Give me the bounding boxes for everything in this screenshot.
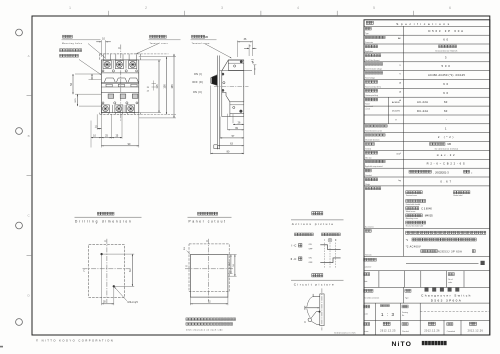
dim 36 top of side view <box>237 41 239 58</box>
lower vent block pole 1 <box>108 94 114 98</box>
blade to contact II (curve) <box>307 309 311 318</box>
svg-text:Scale: Scale <box>364 313 368 315</box>
svg-text:60: 60 <box>444 100 448 104</box>
row: scale / drawing no <box>374 303 376 320</box>
svg-text:M4X35: M4X35 <box>425 215 434 218</box>
wire from contact II to C circle <box>311 312 320 318</box>
svg-text:AC460·AC250 (*1) ·DC125: AC460·AC250 (*1) ·DC125 <box>428 73 465 77</box>
product name: Changeover Switch D563 3P60A <box>425 288 429 292</box>
svg-text:Mounting screw: Mounting screw <box>406 217 419 220</box>
C terminal circle <box>308 318 312 322</box>
top terminal 1 screw (hatched circle) <box>104 61 110 67</box>
svg-text:Type: Type <box>365 33 368 35</box>
svg-text:2 (*2): 2 (*2) <box>438 135 455 139</box>
dim 165 <box>173 54 175 118</box>
circuit picture title (jp) <box>312 274 315 277</box>
svg-text:1: 1 <box>69 6 71 10</box>
inter-pole barrier slots top <box>112 61 114 69</box>
row: Application <box>365 45 368 48</box>
body line above handle band <box>101 72 138 74</box>
svg-text:6: 6 <box>449 6 451 10</box>
svg-text:Specifications: Specifications <box>396 22 452 26</box>
bottom terminal 2 square <box>115 105 123 113</box>
svg-text:Dimensions in mm: Dimensions in mm <box>335 332 356 334</box>
row: project / product name <box>402 287 404 303</box>
drilling dim 30 <box>101 255 103 305</box>
svg-text:165: 165 <box>170 84 174 89</box>
row: customer <box>364 258 367 261</box>
svg-text:Drilling dimension: Drilling dimension <box>75 220 133 224</box>
drilling dimension title (jp) <box>97 212 100 215</box>
circuit body rectangle <box>320 294 324 326</box>
drilling dim 61 <box>102 253 135 255</box>
handle escutcheon pole 1 <box>104 78 115 82</box>
svg-text:60: 60 <box>443 38 450 42</box>
svg-text:C 3.6X40: C 3.6X40 <box>421 208 432 211</box>
handle band double lines <box>101 81 138 83</box>
row: Frame size <box>365 36 367 38</box>
row: accessories <box>365 187 368 190</box>
top terminal 3 square <box>129 61 137 69</box>
svg-text:1mm clearance on each side: 1mm clearance on each side <box>186 328 223 331</box>
leader to terminal screw <box>205 44 231 58</box>
actions picture title (jp) <box>312 212 315 215</box>
svg-text:No. of: No. of <box>448 279 453 281</box>
svg-text:Terminal screw: Terminal screw <box>192 42 210 45</box>
drawing no divider (dashed) <box>420 311 490 313</box>
bottom terminal 1 screw (hatched circle) <box>102 106 108 112</box>
svg-text:Mounting holes: Mounting holes <box>62 42 82 45</box>
bottom dim extension lines <box>100 113 102 148</box>
svg-text:Changeover Switch: Changeover Switch <box>421 294 472 298</box>
svg-text:126: 126 <box>162 84 166 89</box>
svg-text:ON (II): ON (II) <box>193 91 202 94</box>
mounting flange line + hole <box>220 70 252 72</box>
svg-text:24: 24 <box>147 91 149 93</box>
svg-text:max.22: max.22 <box>437 153 457 157</box>
dim 16.5 left <box>79 105 101 107</box>
svg-text:NiTO: NiTO <box>392 341 413 348</box>
svg-text:-C: -C <box>293 244 296 248</box>
side lower profile <box>222 93 230 102</box>
leader from panel-cut label <box>79 60 101 75</box>
svg-text:Wood screw: Wood screw <box>406 210 416 213</box>
panel cutout title (jp) <box>198 212 201 215</box>
svg-text:60: 60 <box>443 91 450 95</box>
svg-text:500: 500 <box>442 64 452 68</box>
leader to mounting hole <box>88 44 106 59</box>
panel cutout: vertical centerline <box>208 239 210 301</box>
svg-text:Panel cutout: Panel cutout <box>189 220 227 224</box>
svg-text:2012.12.25: 2012.12.25 <box>380 330 396 332</box>
accessories right column: maker label <box>453 191 456 194</box>
handle window pole 2 <box>118 84 124 87</box>
drilling: vertical centerline <box>106 239 108 303</box>
row: mounting direction <box>365 134 367 136</box>
svg-text:mm²: mm² <box>396 152 401 155</box>
row: terminal <box>365 143 368 146</box>
punch hole 1 <box>16 29 23 36</box>
svg-text:C: C <box>83 269 85 273</box>
svg-text:AC-22A: AC-22A <box>417 100 428 104</box>
svg-text:B: B <box>28 134 30 138</box>
handle window pole 1 <box>106 84 112 87</box>
svg-text:60: 60 <box>444 109 448 113</box>
drilling hole 1 <box>101 253 103 255</box>
drilling dimension underline <box>75 216 142 218</box>
svg-text:C: C <box>185 264 187 268</box>
svg-text:A: A <box>28 54 30 58</box>
panel section lines <box>216 56 218 150</box>
svg-text:Actions picture: Actions picture <box>292 222 335 226</box>
svg-text:28: 28 <box>147 87 149 89</box>
dim 53 left <box>75 73 101 75</box>
svg-text:1 : 3: 1 : 3 <box>381 312 395 317</box>
handle escutcheon pole 3 <box>128 78 138 82</box>
svg-text:C: C <box>104 239 106 243</box>
svg-text:Maker label: Maker label <box>453 194 463 197</box>
svg-text:OFF (O): OFF (O) <box>192 81 203 84</box>
mounting hole top-left <box>102 70 104 72</box>
svg-text:115: 115 <box>155 84 159 89</box>
bottom terminal 3 screw (hatched circle) <box>128 106 134 112</box>
punch hole 3 <box>16 222 23 229</box>
panel cutout: horizontal centerline <box>185 268 234 270</box>
svg-text:3: 3 <box>445 55 448 59</box>
svg-text:C: C <box>206 239 208 243</box>
small circles below top terminals <box>112 70 114 72</box>
svg-text:ON (I): ON (I) <box>194 73 202 76</box>
svg-text:3: 3 <box>221 6 223 10</box>
top terminal cover (side) <box>228 60 244 70</box>
lower vent block pole 3 <box>132 94 138 98</box>
terminal cover dashed outline bottom <box>100 113 141 115</box>
top terminal 3 screw (hatched circle) <box>130 61 136 67</box>
svg-text:4: 4 <box>297 6 299 10</box>
breaker body outline (front view) <box>101 60 138 113</box>
top terminal 1 square <box>103 61 111 69</box>
front view centerline <box>120 45 122 122</box>
row: Type <box>365 27 368 30</box>
lower vent block pole 2 <box>120 94 126 98</box>
row: weight <box>365 178 368 181</box>
common terminal tick <box>304 306 306 310</box>
terminal cover dashed outline top <box>100 53 141 55</box>
front view: label mounting holes <box>63 35 66 38</box>
handle axis centerline <box>214 86 249 88</box>
panel cutout dims 45.5 / 52 <box>228 254 237 256</box>
terminal cover tabs top <box>103 54 105 60</box>
drilling label M4 or phi5 <box>114 287 126 301</box>
band lower line <box>101 86 138 88</box>
row: standard <box>365 169 368 172</box>
svg-text:1: 1 <box>445 126 448 130</box>
dim 126 <box>166 57 168 115</box>
svg-text:60: 60 <box>443 82 450 86</box>
handle (black) <box>212 75 218 85</box>
table header: Specifications <box>366 21 369 24</box>
row: wire size <box>365 151 368 154</box>
inter-pole barrier slots bottom <box>111 105 113 113</box>
svg-text:M4orφ5: M4orφ5 <box>128 301 139 304</box>
svg-text:Note: Note <box>364 280 368 283</box>
svg-text:© NITTO KOGYO CORPORATION: © NITTO KOGYO CORPORATION <box>36 338 114 342</box>
svg-text:Terminal cover: Terminal cover <box>150 42 168 45</box>
svg-text:Type: Type <box>405 298 409 300</box>
svg-text:AC690V: AC690V <box>392 101 400 104</box>
wire from C circle to body <box>311 321 316 324</box>
spec table outer border <box>364 20 490 335</box>
header terminal connection symbol (jp) <box>295 233 298 236</box>
svg-text:*2 AC460V: *2 AC460V <box>406 245 421 248</box>
leader to terminal cover <box>137 44 158 54</box>
svg-text:Circuit picture: Circuit picture <box>294 283 335 287</box>
svg-text:DC125V: DC125V <box>392 111 400 113</box>
side body front face <box>221 71 223 95</box>
svg-text:D563 3P60A: D563 3P60A <box>431 299 463 303</box>
svg-text:0.67: 0.67 <box>440 179 452 183</box>
bottom cover screw <box>240 110 243 113</box>
row: switching capacity (3 sub-rows) <box>365 98 368 101</box>
top terminal 2 screw (hatched circle) <box>116 61 122 67</box>
panel cut center line (vertical, left) <box>90 121 92 148</box>
row: remarks <box>365 230 368 233</box>
svg-text:-C: -C <box>293 257 296 261</box>
svg-text:Drawing: Drawing <box>402 312 408 314</box>
small circles above bottom terminals <box>114 102 116 104</box>
svg-text:Terminal cover: Terminal cover <box>406 194 418 197</box>
svg-text:N2E53J 3P 60A: N2E53J 3P 60A <box>438 250 462 253</box>
handle window pole 3 <box>131 84 137 87</box>
row: note (sub cells) <box>378 271 380 288</box>
svg-text:M6: M6 <box>205 36 209 39</box>
wire: common terminal lead <box>305 307 319 309</box>
front view: label terminal cover <box>150 35 153 38</box>
row: signatures <box>374 320 376 335</box>
svg-text:II: II <box>291 257 293 261</box>
svg-text:Customer: Customer <box>364 266 372 269</box>
drilling: dashed body outline <box>89 245 125 298</box>
svg-text:Checked: Checked <box>402 331 409 333</box>
svg-text:Neutral electrode label: Neutral electrode label <box>406 224 424 227</box>
row: crimp terminal <box>365 160 367 162</box>
svg-text:Detachable handle: Detachable handle <box>406 203 421 206</box>
top cover screw <box>240 61 242 63</box>
svg-text:2: 2 <box>145 6 147 10</box>
circuit centerline <box>321 288 323 330</box>
svg-text:order: order <box>448 281 452 284</box>
svg-text:for alternative terminal: for alternative terminal <box>435 147 459 150</box>
bottom terminal 2 screw (hatched circle) <box>116 106 122 112</box>
front view: label handle panel cut center (2 lines) <box>60 49 63 52</box>
side dim extension lines <box>243 117 245 155</box>
punch hole 4 <box>16 319 23 326</box>
spec table row lines <box>364 25 490 27</box>
svg-text:2012.12.26: 2012.12.26 <box>424 330 440 332</box>
zone tick marks top <box>107 11 109 16</box>
dim 115 <box>158 60 160 113</box>
svg-text:2012.12.26: 2012.12.26 <box>468 330 484 332</box>
panel cutout note (3 lines) <box>186 318 189 321</box>
side view: label terminal screw M6 <box>192 35 195 38</box>
svg-text:R2-6~CB22-6S: R2-6~CB22-6S <box>427 162 467 166</box>
bottom terminal 3 square <box>127 105 135 113</box>
handle outline strokes <box>210 78 212 84</box>
actions picture underline <box>291 219 344 221</box>
row: Rated current <box>365 81 368 84</box>
right dim extension lines <box>139 59 161 61</box>
row: Uninterrupted duty <box>365 89 368 92</box>
node: lower contact II <box>319 311 321 313</box>
node: upper contact I <box>313 294 320 297</box>
svg-text:D563 3P 60A: D563 3P 60A <box>428 29 464 33</box>
registration mark bottom-left <box>0 346 3 348</box>
svg-text:Disconnector Switch: Disconnector Switch <box>436 50 458 53</box>
side bottom base <box>222 95 230 117</box>
svg-text:M6: M6 <box>448 143 452 146</box>
panel cutout: dashed escutcheon outline <box>189 244 229 292</box>
screw circles on front face <box>222 73 224 75</box>
panel cutout rectangle <box>190 255 228 298</box>
svg-text:DC-22A: DC-22A <box>417 109 428 113</box>
bottom terminal 1 square <box>101 105 109 113</box>
row: Rated insulation voltage <box>365 63 368 66</box>
zone tick marks left <box>27 95 33 97</box>
panel cutout underline <box>188 216 232 218</box>
punch hole 2 <box>16 128 23 135</box>
row: No. of poles <box>365 54 368 57</box>
body line below handle band <box>101 91 138 93</box>
small dim x92 (handle offset) <box>91 74 93 80</box>
handle escutcheon pole 2 <box>116 78 127 82</box>
row: Rated voltage <box>365 72 368 75</box>
spec table column divider <box>402 26 404 256</box>
terminal cover tabs bottom <box>101 113 103 115</box>
svg-text:Committed: Committed <box>447 330 455 333</box>
chart trace II-C <box>320 258 340 263</box>
row: short time current <box>365 125 367 127</box>
svg-text:-: - <box>446 119 447 122</box>
drilling: horizontal centerline <box>83 268 131 270</box>
blade to contact I (curve) <box>307 296 314 307</box>
top terminal 2 square <box>115 61 123 69</box>
header handle position (jp) <box>322 233 325 236</box>
side top edge <box>228 59 244 61</box>
svg-text:Draws: Draws <box>364 330 369 333</box>
drilling hole 2 <box>113 285 115 287</box>
panel cutout dim 92 <box>189 297 191 305</box>
svg-text:φ4.5: φ4.5 <box>253 58 255 63</box>
svg-text:, JISC8201-3: , JISC8201-3 <box>434 171 450 175</box>
panel bottom hook <box>214 145 220 149</box>
bottom terminal cover (side) <box>230 102 244 114</box>
svg-text:5: 5 <box>373 6 375 10</box>
side body top slope <box>222 60 229 71</box>
svg-text:O: O <box>329 239 331 242</box>
chart dashed verticals <box>324 243 326 268</box>
chart trace I-C <box>320 245 340 250</box>
circuit picture underline <box>291 279 344 281</box>
